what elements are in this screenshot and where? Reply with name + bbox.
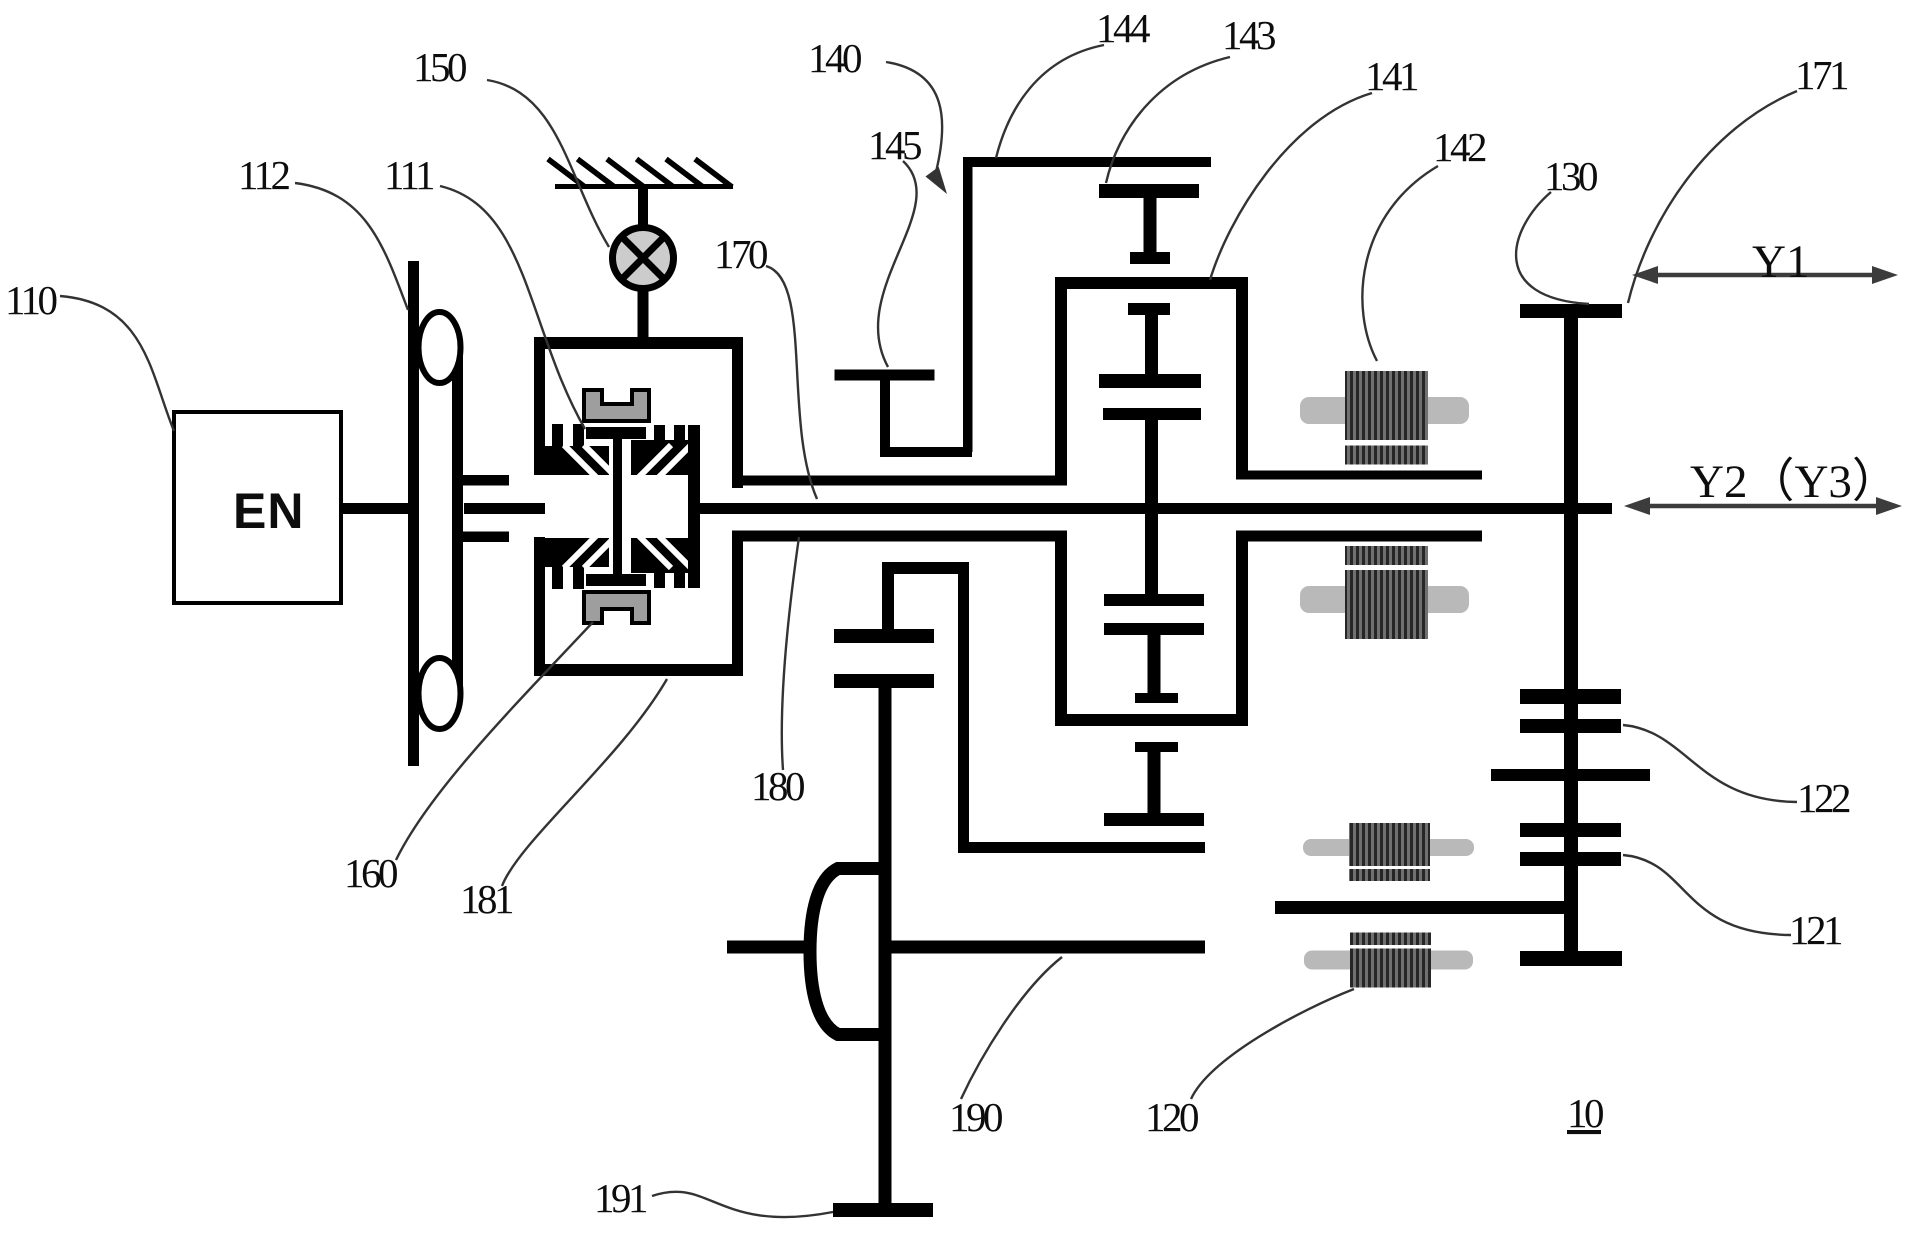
svg-text:Y1: Y1 — [1752, 236, 1809, 288]
svg-text:144: 144 — [1096, 5, 1150, 51]
svg-text:191: 191 — [594, 1175, 647, 1221]
svg-text:121: 121 — [1789, 907, 1842, 953]
svg-text:Y2（Y3）: Y2（Y3） — [1690, 456, 1899, 508]
svg-text:112: 112 — [238, 152, 289, 198]
svg-text:110: 110 — [5, 277, 56, 323]
svg-text:122: 122 — [1797, 775, 1850, 821]
svg-text:EN: EN — [233, 483, 304, 539]
svg-text:120: 120 — [1145, 1094, 1198, 1140]
svg-text:181: 181 — [460, 876, 513, 922]
svg-text:143: 143 — [1222, 12, 1275, 58]
svg-text:150: 150 — [413, 44, 466, 90]
svg-text:10: 10 — [1567, 1090, 1603, 1136]
svg-text:160: 160 — [344, 850, 397, 896]
svg-text:140: 140 — [808, 35, 861, 81]
svg-text:111: 111 — [384, 152, 434, 198]
svg-text:170: 170 — [714, 231, 767, 277]
svg-text:145: 145 — [868, 122, 921, 168]
svg-text:130: 130 — [1544, 153, 1597, 199]
svg-text:180: 180 — [751, 763, 804, 809]
svg-text:171: 171 — [1795, 52, 1848, 98]
svg-text:141: 141 — [1365, 53, 1418, 99]
svg-text:142: 142 — [1433, 124, 1486, 170]
svg-text:190: 190 — [949, 1094, 1002, 1140]
